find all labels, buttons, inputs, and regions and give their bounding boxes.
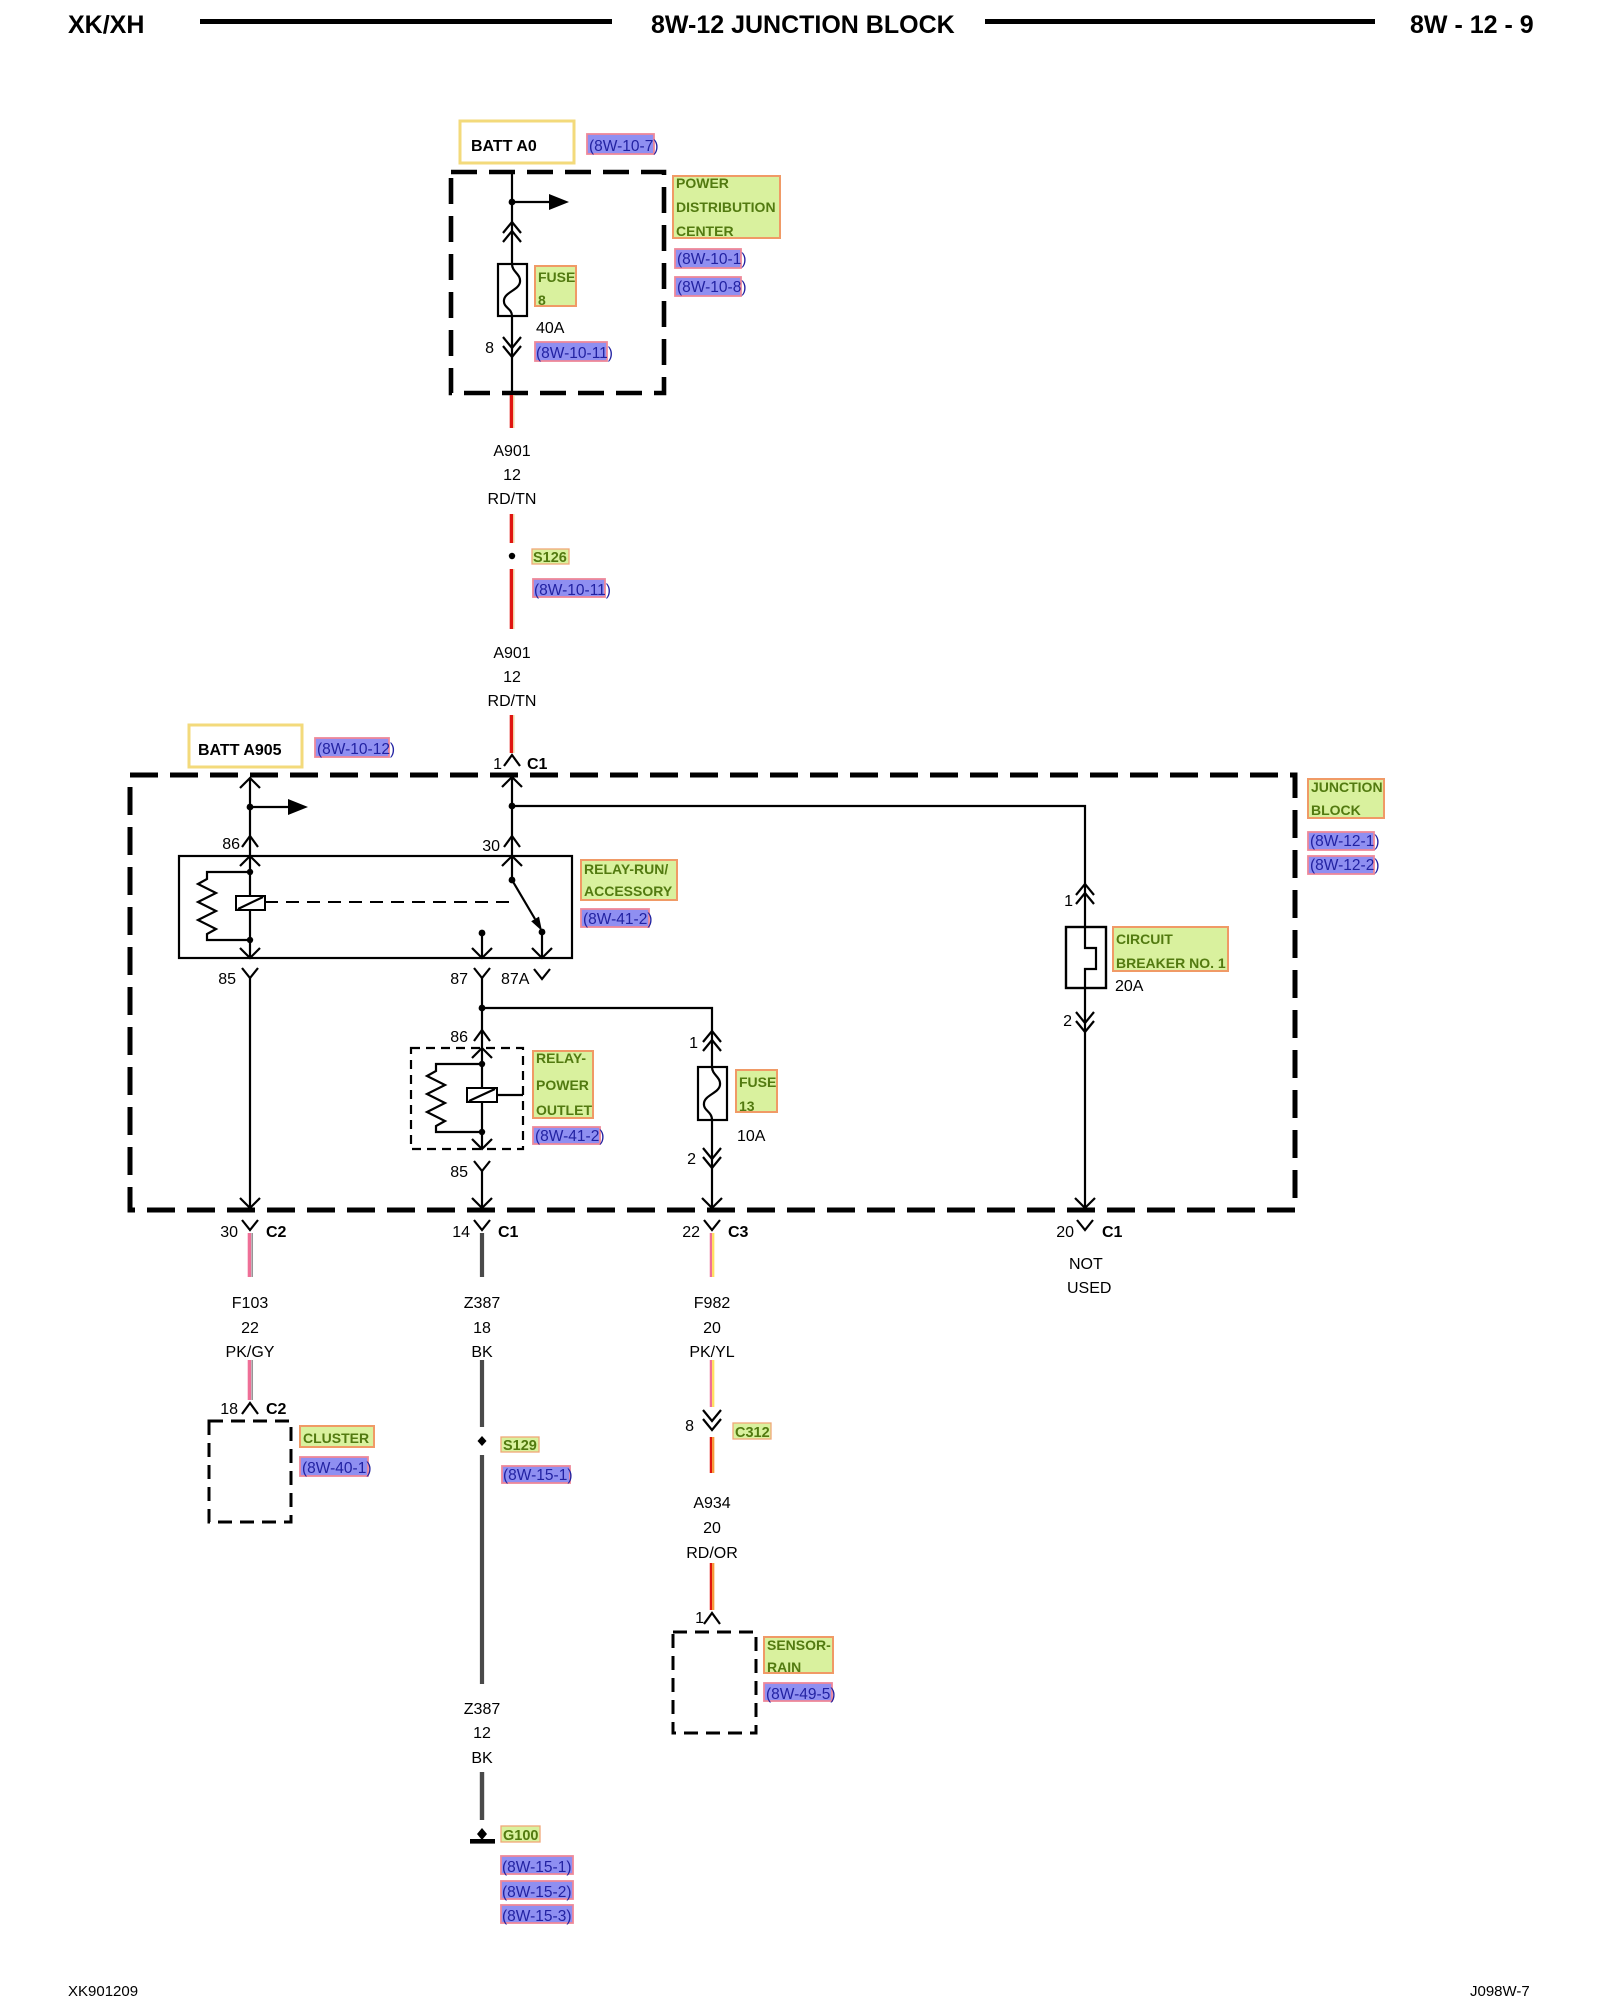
junction block box (dashed) xyxy=(130,775,1295,1210)
power distribution center box (dashed) xyxy=(451,172,664,393)
wire fuse 13 down to C3 exit xyxy=(711,1120,713,1208)
splice S126 xyxy=(509,553,515,559)
svg-text:20: 20 xyxy=(703,1320,721,1337)
wire from fuse to PDC bottom edge xyxy=(511,316,513,393)
node at A905 branch xyxy=(247,804,254,811)
header rule right xyxy=(985,19,1375,24)
svg-text:85: 85 xyxy=(450,1164,468,1181)
entry arrow for C1 pin 1 into junction block xyxy=(502,777,522,787)
circuit breaker label xyxy=(1113,927,1228,971)
svg-text:XK901209: XK901209 xyxy=(68,1983,138,2000)
svg-text:(8W-10-8): (8W-10-8) xyxy=(677,279,746,296)
node power relay coil lower junction xyxy=(479,1129,485,1135)
wire Z387 12 BK (dark gray) long run xyxy=(480,1455,484,1684)
out-of-page chevrons circuit breaker (down) xyxy=(1076,1012,1094,1032)
relay run/accessory box xyxy=(179,856,572,958)
reference (8W-15-2) xyxy=(501,1881,573,1899)
wire A901 (red) to junction block xyxy=(510,715,513,753)
wire pin 85 down to C2 exit xyxy=(249,977,251,1208)
svg-text:RD/TN: RD/TN xyxy=(488,491,537,508)
svg-text:A901: A901 xyxy=(493,645,530,662)
entry arrow for A905 into junction block xyxy=(240,778,260,788)
svg-text:Z387: Z387 xyxy=(464,1295,501,1312)
svg-text:BREAKER NO. 1: BREAKER NO. 1 xyxy=(1116,955,1226,971)
svg-text:8W-12 JUNCTION BLOCK: 8W-12 JUNCTION BLOCK xyxy=(651,11,955,39)
svg-text:S129: S129 xyxy=(503,1438,537,1454)
svg-text:A901: A901 xyxy=(493,443,530,460)
svg-text:2: 2 xyxy=(687,1151,696,1168)
svg-text:RD/TN: RD/TN xyxy=(488,693,537,710)
relay switch blade to 87A xyxy=(512,880,535,919)
svg-text:POWER: POWER xyxy=(536,1077,589,1093)
svg-text:30: 30 xyxy=(220,1224,238,1241)
svg-text:C2: C2 xyxy=(266,1224,287,1241)
svg-text:8: 8 xyxy=(685,1418,694,1435)
wire branch to right with arrow xyxy=(512,201,550,203)
relay mechanical linkage (dashed) xyxy=(265,901,512,903)
svg-text:(8W-15-1): (8W-15-1) xyxy=(503,1467,572,1484)
reference (8W-10-8) xyxy=(675,277,741,296)
svg-text:(8W-10-12): (8W-10-12) xyxy=(317,741,395,758)
cluster box (dashed) xyxy=(209,1421,291,1522)
sensor-rain label xyxy=(764,1637,833,1673)
wire F982 20 PK/YL (pink/yellow) xyxy=(710,1233,712,1277)
reference (8W-10-7) xyxy=(587,134,654,154)
svg-text:12: 12 xyxy=(473,1725,491,1742)
splice S129 xyxy=(478,1436,487,1446)
wire breaker down to C1 exit xyxy=(1084,988,1086,1208)
node splice in PDC xyxy=(509,199,516,206)
svg-text:(8W-10-1): (8W-10-1) xyxy=(677,251,746,268)
svg-text:RAIN: RAIN xyxy=(767,1659,801,1675)
svg-text:C1: C1 xyxy=(1102,1224,1123,1241)
svg-text:(8W-41-2): (8W-41-2) xyxy=(583,911,652,928)
svg-text:A934: A934 xyxy=(693,1495,730,1512)
wire A901 (red) above splice xyxy=(510,514,513,543)
relay contact 87A leg xyxy=(541,932,543,958)
svg-text:SENSOR-: SENSOR- xyxy=(767,1637,831,1653)
reference (8W-15-1) at S129 xyxy=(502,1466,570,1483)
svg-text:RD/OR: RD/OR xyxy=(686,1545,738,1562)
svg-text:(8W-10-11): (8W-10-11) xyxy=(534,582,611,599)
svg-text:14: 14 xyxy=(452,1224,470,1241)
svg-text:8: 8 xyxy=(538,292,546,308)
out-of-page chevrons fuse 13 (down) xyxy=(703,1148,721,1168)
svg-text:87: 87 xyxy=(450,971,468,988)
reference (8W-49-5) xyxy=(764,1683,832,1701)
wire A901 12 RD/TN (red) xyxy=(510,395,513,428)
svg-text:22: 22 xyxy=(682,1224,700,1241)
wire A934 20 RD/OR (red/orange) xyxy=(710,1437,712,1473)
wire Z387 18 BK (dark gray) xyxy=(480,1233,484,1277)
out-of-page connector chevrons (down) xyxy=(503,337,521,357)
out-of-page chevrons circuit breaker (up) xyxy=(1076,884,1094,904)
wire F982 (pink/yellow) lower xyxy=(710,1360,712,1407)
relay power outlet solenoid symbol xyxy=(467,1088,497,1102)
power distribution center label xyxy=(673,176,780,238)
svg-text:F103: F103 xyxy=(232,1295,269,1312)
svg-text:1: 1 xyxy=(689,1035,698,1052)
svg-text:86: 86 xyxy=(450,1029,468,1046)
circuit breaker no. 1 xyxy=(1066,927,1106,988)
relay power outlet pin 85 arrow out xyxy=(472,1139,492,1149)
svg-text:BLOCK: BLOCK xyxy=(1311,802,1361,818)
svg-text:18: 18 xyxy=(220,1401,238,1418)
svg-text:87A: 87A xyxy=(501,971,530,988)
wire A901 (red) below splice xyxy=(510,569,513,629)
relay switch common arrow (pin 30 inside) xyxy=(502,856,522,866)
svg-text:G100: G100 xyxy=(503,1828,538,1844)
svg-text:CIRCUIT: CIRCUIT xyxy=(1116,931,1173,947)
svg-text:PK/YL: PK/YL xyxy=(689,1344,734,1361)
svg-text:22: 22 xyxy=(241,1320,259,1337)
svg-text:CLUSTER: CLUSTER xyxy=(303,1430,369,1446)
relay coil pin 85 arrow out xyxy=(240,948,260,958)
header rule left xyxy=(200,19,612,24)
svg-text:10A: 10A xyxy=(737,1128,766,1145)
svg-text:(8W-49-5): (8W-49-5) xyxy=(766,1686,835,1703)
reference (8W-10-12) xyxy=(315,738,389,757)
svg-text:XK/XH: XK/XH xyxy=(68,11,144,39)
reference (8W-41-2) power outlet xyxy=(533,1127,600,1144)
ground G100 symbol xyxy=(477,1828,487,1840)
svg-text:OUTLET: OUTLET xyxy=(536,1102,592,1118)
reference (8W-10-1) xyxy=(675,249,741,268)
svg-text:(8W-41-2): (8W-41-2) xyxy=(535,1128,604,1145)
node at C1 branch to circuit breaker xyxy=(509,803,516,810)
svg-text:40A: 40A xyxy=(536,320,565,337)
junction block label xyxy=(1308,779,1384,818)
svg-text:(8W-12-2): (8W-12-2) xyxy=(1310,857,1379,874)
svg-text:1: 1 xyxy=(1064,893,1073,910)
svg-text:JUNCTION: JUNCTION xyxy=(1311,779,1383,795)
reference (8W-10-11) at S126 xyxy=(533,579,605,597)
svg-text:J098W-7: J098W-7 xyxy=(1470,1983,1530,2000)
svg-text:FUSE: FUSE xyxy=(538,269,575,285)
svg-text:C312: C312 xyxy=(735,1425,770,1441)
relay coil resistor xyxy=(198,872,250,940)
fuse F8 xyxy=(498,264,527,316)
svg-text:(8W-15-2): (8W-15-2) xyxy=(502,1884,571,1901)
wire F103 22 PK/GY (pink/gray) xyxy=(248,1233,251,1277)
wire from PDC top edge down to branch node xyxy=(511,172,513,264)
out-of-page connector chevrons (up) xyxy=(503,222,521,242)
svg-text:RELAY-RUN/: RELAY-RUN/ xyxy=(584,861,668,877)
fuse 8 label xyxy=(535,266,576,306)
reference (8W-15-1) xyxy=(501,1856,573,1874)
svg-text:CENTER: CENTER xyxy=(676,223,734,239)
svg-text:1: 1 xyxy=(695,1610,704,1627)
svg-text:1: 1 xyxy=(493,756,502,773)
wire 85 down to C1 exit xyxy=(481,1170,483,1208)
svg-text:Z387: Z387 xyxy=(464,1701,501,1718)
svg-text:BATT A905: BATT A905 xyxy=(198,742,282,759)
wire from 87 to power outlet relay and fuse 13 xyxy=(481,977,483,1048)
svg-text:12: 12 xyxy=(503,669,521,686)
svg-text:(8W-15-1): (8W-15-1) xyxy=(502,1859,571,1876)
relay power outlet coil terminal arrow (86 inside) xyxy=(472,1048,492,1058)
svg-text:(8W-12-1): (8W-12-1) xyxy=(1310,833,1379,850)
svg-text:BK: BK xyxy=(471,1344,493,1361)
svg-text:18: 18 xyxy=(473,1320,491,1337)
reference (8W-15-3) xyxy=(501,1905,573,1923)
reference (8W-12-1) xyxy=(1308,832,1374,850)
svg-text:(8W-10-11): (8W-10-11) xyxy=(536,345,613,362)
fuse F13 xyxy=(698,1067,727,1120)
svg-text:POWER: POWER xyxy=(676,175,729,191)
relay power outlet label xyxy=(533,1051,593,1118)
svg-text:86: 86 xyxy=(222,836,240,853)
svg-text:C2: C2 xyxy=(266,1401,287,1418)
svg-text:DISTRIBUTION: DISTRIBUTION xyxy=(676,199,776,215)
BATT A0 source box xyxy=(460,121,574,163)
svg-text:ACCESSORY: ACCESSORY xyxy=(584,883,673,899)
wire Z387 (dark gray) to ground xyxy=(480,1772,484,1820)
svg-text:20: 20 xyxy=(703,1520,721,1537)
svg-text:13: 13 xyxy=(739,1098,755,1114)
relay coil terminal arrow (pin 86 inside) xyxy=(240,856,260,866)
BATT A905 source box xyxy=(189,725,302,767)
svg-text:20A: 20A xyxy=(1115,978,1144,995)
svg-text:S126: S126 xyxy=(533,550,567,566)
svg-text:USED: USED xyxy=(1067,1280,1111,1297)
svg-text:RELAY-: RELAY- xyxy=(536,1050,586,1066)
svg-text:(8W-15-3): (8W-15-3) xyxy=(502,1908,571,1925)
node contact 87A xyxy=(539,929,546,936)
svg-text:C3: C3 xyxy=(728,1224,749,1241)
reference (8W-40-1) xyxy=(300,1457,368,1476)
svg-text:20: 20 xyxy=(1056,1224,1074,1241)
svg-text:8W - 12 - 9: 8W - 12 - 9 xyxy=(1410,11,1534,39)
relay power outlet box (dashed) xyxy=(411,1048,523,1149)
svg-text:(8W-10-7): (8W-10-7) xyxy=(589,138,658,155)
svg-text:(8W-40-1): (8W-40-1) xyxy=(302,1460,371,1477)
relay coil solenoid symbol xyxy=(236,896,265,910)
reference (8W-12-2) xyxy=(1308,856,1374,874)
svg-text:C1: C1 xyxy=(527,756,548,773)
wire solenoid to box edge xyxy=(497,1094,523,1096)
svg-text:F982: F982 xyxy=(694,1295,731,1312)
reference (8W-41-2) xyxy=(581,909,649,927)
reference (8W-10-11) xyxy=(535,342,607,361)
relay contact 87 leg xyxy=(479,930,486,937)
svg-text:PK/GY: PK/GY xyxy=(226,1344,275,1361)
relay power outlet resistor xyxy=(427,1064,482,1132)
svg-text:NOT: NOT xyxy=(1069,1256,1103,1273)
svg-text:2: 2 xyxy=(1063,1013,1072,1030)
sensor-rain box (dashed) xyxy=(673,1632,756,1733)
svg-text:C1: C1 xyxy=(498,1224,519,1241)
svg-text:FUSE: FUSE xyxy=(739,1074,776,1090)
ground G100 label xyxy=(501,1826,540,1842)
svg-text:30: 30 xyxy=(482,838,500,855)
branch arrow to right xyxy=(250,806,289,808)
svg-text:BATT A0: BATT A0 xyxy=(471,138,537,155)
svg-text:12: 12 xyxy=(503,467,521,484)
cluster label xyxy=(300,1426,374,1447)
relay run/accessory label xyxy=(581,860,677,900)
fuse 13 label xyxy=(736,1070,777,1112)
out-of-page chevrons fuse 13 (up) xyxy=(703,1031,721,1051)
svg-text:85: 85 xyxy=(218,971,236,988)
wire Z387 (dark gray) to splice xyxy=(480,1360,484,1427)
svg-text:BK: BK xyxy=(471,1750,493,1767)
node relay coil lower junction xyxy=(247,937,253,943)
wire to circuit breaker no.1 xyxy=(512,806,1085,927)
wire A934 (red/orange) lower xyxy=(710,1563,712,1610)
wire F103 (pink/gray) lower xyxy=(248,1360,251,1400)
svg-text:8: 8 xyxy=(485,340,494,357)
